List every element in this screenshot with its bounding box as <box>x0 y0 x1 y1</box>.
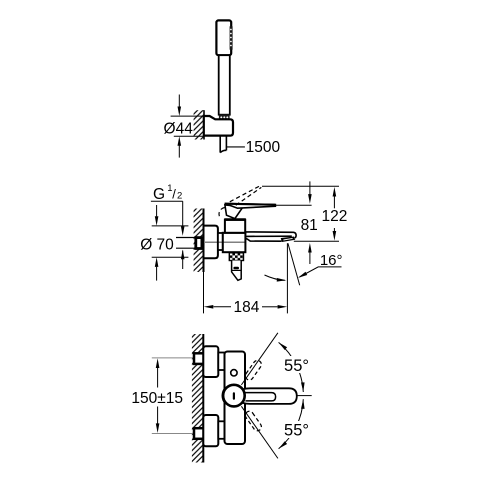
centerline right <box>297 395 312 397</box>
svg-text:122: 122 <box>321 208 347 225</box>
lever hub (side) <box>225 205 243 219</box>
svg-text:Ø 70: Ø 70 <box>140 236 174 253</box>
svg-text:G: G <box>153 186 165 203</box>
upper union square <box>194 353 204 364</box>
hub slot <box>233 392 235 399</box>
supply pipe G1/2 <box>176 238 196 249</box>
small circle (diverter front) <box>231 370 237 376</box>
svg-text:150±15: 150±15 <box>131 390 183 407</box>
lever (front view) <box>243 388 297 404</box>
shower hose <box>220 136 226 153</box>
diverter pull knob <box>232 261 242 281</box>
svg-text:1500: 1500 <box>246 139 281 156</box>
wall union square <box>196 238 202 249</box>
hub circle <box>223 385 245 407</box>
hub outer ring arc <box>222 388 225 404</box>
escutcheon flange (side) <box>204 226 218 259</box>
svg-text:55°: 55° <box>284 357 309 375</box>
wall (top view) <box>194 110 204 139</box>
water stream slanted line 16 deg <box>288 243 300 285</box>
dimension Ø44 <box>171 95 209 158</box>
hand shower handle <box>219 55 230 114</box>
mixer body (side) <box>223 233 246 252</box>
extent line to lower union <box>152 433 194 435</box>
lever tip extension line <box>276 204 312 206</box>
svg-text:16°: 16° <box>320 252 343 269</box>
extent line to upper union <box>152 357 194 359</box>
dimension 150±15 <box>157 365 159 428</box>
lower 55deg arc <box>279 399 304 449</box>
wall (side view) <box>194 209 204 273</box>
lever blade solid <box>225 203 276 208</box>
16 deg arc left with arrow <box>265 275 285 280</box>
svg-text:2: 2 <box>177 191 182 202</box>
lever recess <box>246 393 276 401</box>
label 1500 (hose length) <box>226 146 245 148</box>
label 55 deg upper <box>283 356 311 373</box>
hand shower head <box>216 20 232 55</box>
aerator (spout outlet) <box>281 237 295 242</box>
dimension 184 <box>214 306 278 308</box>
body centerline <box>205 241 245 243</box>
mixer body (front) <box>225 352 246 445</box>
svg-text:81: 81 <box>301 217 318 234</box>
upper escutcheon (front) <box>203 346 218 377</box>
diverter knurl band <box>229 253 243 261</box>
svg-text:55°: 55° <box>284 422 309 440</box>
wall line extension (extension line for 184) <box>203 272 205 313</box>
lower connector <box>218 421 224 439</box>
svg-text:Ø44: Ø44 <box>164 120 194 137</box>
dimension top extent line (lever raised) <box>262 185 339 187</box>
dashed lever stub down <box>244 410 263 433</box>
55deg legs (thin lines) <box>241 333 278 385</box>
lower escutcheon (front) <box>203 415 218 446</box>
upper 55deg arc <box>279 342 304 392</box>
hose nut knurl <box>219 114 230 119</box>
dimension 122 <box>333 193 335 235</box>
lower union square <box>194 428 204 439</box>
16 deg arc right with arrow <box>300 267 342 277</box>
spout <box>246 232 297 241</box>
svg-text:184: 184 <box>233 299 259 316</box>
svg-text:/: / <box>172 187 176 202</box>
vertical reference line at spout tip <box>286 243 288 313</box>
knob grip bar <box>233 267 239 270</box>
cartridge collar <box>225 220 245 233</box>
outlet extent line <box>294 240 339 242</box>
dashed lever stub up <box>244 359 263 382</box>
dimension Ø70 <box>152 205 189 281</box>
upper connector <box>218 353 224 371</box>
neck between flange and body <box>218 233 223 250</box>
wall (front view) <box>192 334 203 463</box>
lever blade dashed (raised position) <box>219 186 261 219</box>
wall holder bracket <box>204 116 233 136</box>
dimension 81 <box>309 181 311 264</box>
label 55 deg lower <box>283 421 311 438</box>
dimension G1/2 <box>151 183 185 269</box>
